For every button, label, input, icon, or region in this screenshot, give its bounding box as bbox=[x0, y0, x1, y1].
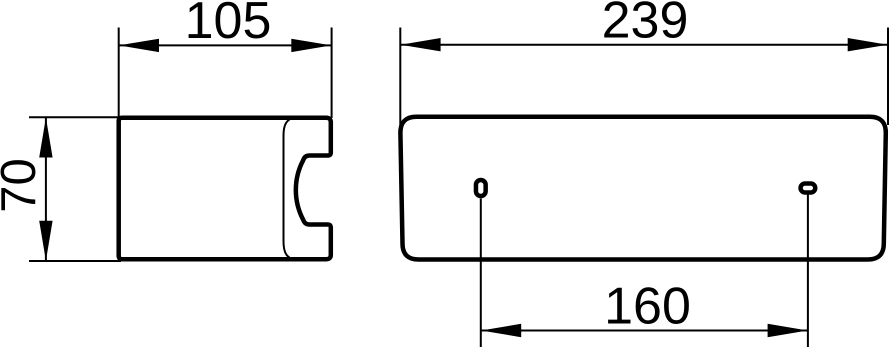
dimension text 160 bbox=[604, 278, 691, 336]
dimension 105: right arrowhead bbox=[291, 39, 331, 52]
dimension 70: top arrowhead bbox=[39, 118, 52, 158]
svg-text:105: 105 bbox=[185, 0, 272, 50]
side view inner tangent edge bbox=[284, 120, 290, 258]
dimension 160: right arrowhead bbox=[768, 324, 808, 337]
right mounting slot (horizontal) bbox=[801, 184, 816, 193]
svg-text:239: 239 bbox=[602, 0, 689, 50]
svg-text:70: 70 bbox=[0, 158, 46, 213]
dimension 105: extension lines bbox=[119, 28, 332, 127]
dimension 239: extension lines bbox=[400, 28, 888, 135]
left mounting slot (vertical) bbox=[476, 180, 486, 196]
dimension 239: dimension line bbox=[400, 44, 888, 46]
dimension text 239 bbox=[602, 0, 689, 50]
dimension 160: left arrowhead bbox=[481, 324, 521, 337]
dimension text 70 (rotated) bbox=[0, 158, 46, 213]
dimension 160: leader/extension lines from slots bbox=[481, 195, 808, 348]
side view outline (left) bbox=[119, 118, 331, 259]
svg-text:160: 160 bbox=[604, 278, 691, 336]
dimension 239: left arrowhead bbox=[401, 38, 441, 51]
dimension 70: bottom arrowhead bbox=[39, 221, 52, 261]
dimension 70: extension lines bbox=[29, 117, 121, 261]
dimension 70: dimension line bbox=[45, 118, 47, 261]
dimension 239: right arrowhead bbox=[848, 38, 888, 51]
dimension 105: left arrowhead bbox=[119, 39, 159, 52]
dimension text 105 bbox=[185, 0, 272, 50]
dimension 160: dimension line bbox=[481, 330, 808, 332]
front view outline (right) bbox=[400, 117, 885, 260]
dimension 105: dimension line bbox=[119, 44, 332, 46]
